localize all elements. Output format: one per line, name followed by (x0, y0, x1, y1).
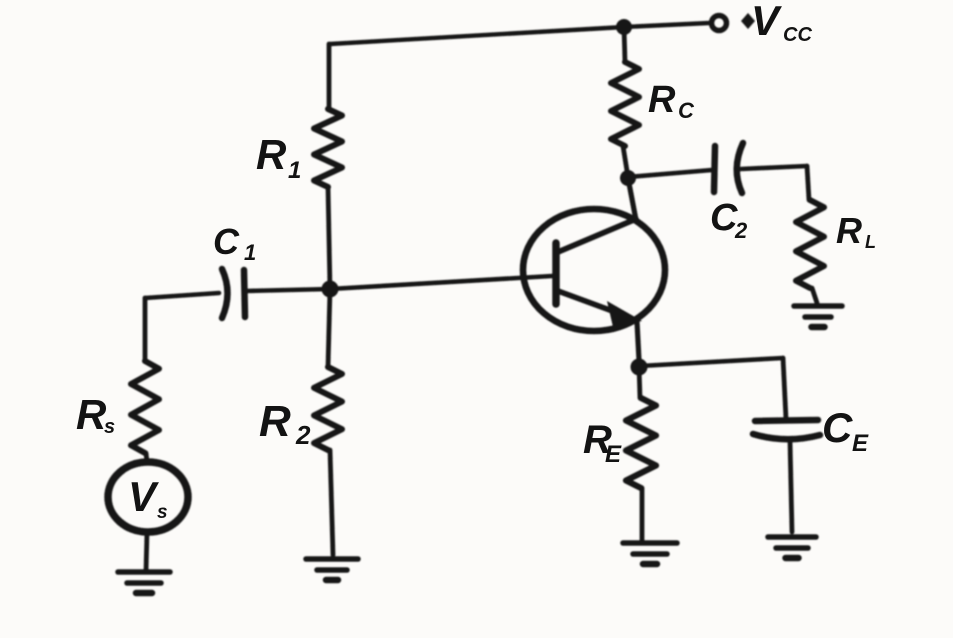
svg-text:C: C (213, 221, 240, 262)
svg-text:E: E (605, 441, 622, 468)
svg-text:R: R (648, 79, 676, 121)
svg-text:E: E (852, 430, 869, 457)
svg-text:V: V (751, 0, 782, 44)
svg-text:1: 1 (288, 157, 301, 184)
svg-text:2: 2 (734, 218, 748, 243)
svg-text:s: s (104, 416, 115, 438)
svg-text:2: 2 (295, 420, 311, 450)
svg-text:R: R (259, 397, 291, 446)
svg-text:C: C (678, 98, 695, 123)
svg-text:CC: CC (783, 24, 812, 46)
svg-text:L: L (865, 232, 876, 252)
svg-text:s: s (157, 502, 168, 523)
svg-text:V: V (128, 473, 159, 520)
svg-text:C: C (710, 197, 738, 239)
svg-text:C: C (822, 404, 853, 451)
svg-text:R: R (836, 210, 862, 251)
svg-text:R: R (256, 131, 287, 178)
svg-text:1: 1 (244, 240, 256, 265)
svg-text:R: R (76, 391, 107, 438)
